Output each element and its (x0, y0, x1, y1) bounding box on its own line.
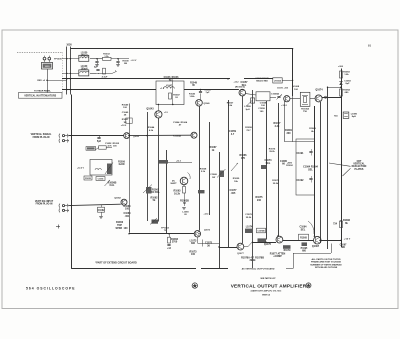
wire TD1064 to Q1074 (310, 98, 315, 100)
wire input upper (69, 135, 124, 137)
wire L1030 line (62, 58, 79, 60)
wire crt arrow upper (329, 163, 351, 166)
wire q1073 right (197, 243, 219, 245)
svg-text:470: 470 (241, 157, 246, 160)
diode D1083 (339, 81, 342, 83)
svg-text:+12.2: +12.2 (281, 105, 287, 107)
wire col 239 (242, 96, 244, 243)
dark box R1079 (283, 245, 291, 249)
svg-text:910: 910 (257, 199, 262, 202)
capacitor C1051 (99, 136, 101, 138)
ground q1063 (184, 193, 186, 206)
svg-text:C1055: C1055 (98, 179, 105, 181)
svg-text:+12.2 V: +12.2 V (77, 167, 85, 169)
svg-text:7pF: 7pF (206, 92, 211, 94)
svg-text:C1062: C1062 (98, 210, 105, 212)
inductor L1047 (164, 87, 175, 89)
wire upper plate vertical (327, 87, 329, 249)
capacitor C1049 (200, 90, 202, 92)
wire left long vertical (71, 95, 73, 269)
svg-text:WER 64: WER 64 (262, 293, 271, 296)
transistor Q1064B (191, 132, 197, 138)
svg-text:+300: +300 (338, 66, 344, 68)
transistor Q1073 (194, 231, 200, 237)
svg-text:*PART OF EXTEND CIRCUIT BOARD: *PART OF EXTEND CIRCUIT BOARD (95, 261, 137, 264)
wire coax bus left (66, 47, 68, 95)
wire delay to cap (270, 97, 276, 99)
wire L1040 line (62, 73, 79, 75)
svg-text:8µH: 8µH (352, 116, 356, 118)
svg-text:R1049: R1049 (122, 104, 129, 107)
svg-text:C1092: C1092 (296, 179, 304, 182)
svg-text:WITH BLUE OUTLINE: WITH BLUE OUTLINE (315, 267, 338, 269)
wire board edge right (286, 268, 293, 270)
dark box P1095 (302, 242, 308, 246)
stage1 bias cluster boxes (86, 147, 96, 151)
transistor Q1074 (315, 95, 322, 102)
svg-text:SEL: SEL (266, 162, 271, 165)
resistor R1063c (169, 234, 171, 237)
svg-text:PLATES: PLATES (355, 168, 364, 171)
pot bottom cluster (152, 220, 159, 224)
node rail right (340, 97, 341, 98)
wire Q1040 col (199, 106, 201, 230)
svg-text:390: 390 (191, 242, 196, 245)
svg-text:.005: .005 (231, 192, 236, 195)
wire from J1030 down (47, 69, 49, 93)
svg-text:TD1064: TD1064 (301, 107, 310, 110)
variable capacitor C1058A (277, 96, 280, 98)
box L1047/R1047 (156, 81, 184, 105)
svg-text:16.2k: 16.2k (174, 192, 181, 195)
wire rear-panel boundary right (62, 52, 64, 92)
svg-text:Q1043: Q1043 (146, 108, 154, 111)
wire crt arrow lower (343, 168, 351, 176)
wire Q1064 to TD1064 (290, 98, 300, 100)
svg-text:C1091: C1091 (296, 152, 304, 155)
svg-text:VERTICAL SIGNAL: VERTICAL SIGNAL (31, 133, 52, 136)
wire stage col 147 (147, 112, 149, 221)
node rail tap (66, 78, 67, 79)
svg-text:39.2k: 39.2k (250, 259, 257, 262)
svg-text:R1047: R1047 (173, 94, 180, 97)
arrow into stage (112, 71, 117, 73)
node REF junction (46, 80, 47, 81)
wire q1064b join (129, 134, 191, 136)
svg-text:L1040: L1040 (81, 65, 88, 68)
junction dots set (71, 135, 72, 136)
svg-text:L1030: L1030 (81, 52, 88, 54)
svg-text:P1095: P1095 (301, 248, 308, 250)
ground C1062 (99, 216, 103, 218)
wire rail mid (62, 78, 230, 80)
svg-text:TO REAR PANEL: TO REAR PANEL (34, 90, 52, 93)
wire first stage column (129, 104, 131, 233)
resistor R1047 (169, 93, 172, 99)
svg-text:+12.2: +12.2 (121, 125, 127, 127)
wire row 234 (129, 233, 194, 235)
dark box R1069 (198, 190, 205, 193)
svg-text:1.96k: 1.96k (189, 96, 195, 98)
svg-text:L1074: L1074 (246, 225, 253, 228)
arc q1097 (308, 221, 314, 234)
plus mark (56, 226, 60, 228)
gain pots (107, 164, 112, 175)
thermal block TD1064 (300, 92, 310, 106)
svg-text:4.7k 100: 4.7k 100 (107, 144, 117, 147)
svg-text:3µH: 3µH (245, 109, 249, 111)
wire col 228 (228, 100, 230, 247)
capacitor C1092 (309, 178, 312, 180)
svg-text:C1097: C1097 (340, 244, 347, 246)
delay-line box (256, 92, 270, 101)
svg-text:C1046 R1046: C1046 R1046 (164, 76, 180, 79)
svg-text:DC BAL: DC BAL (151, 191, 161, 194)
svg-text:CAL: CAL (110, 184, 115, 187)
wire dashed rear-panel boundary top (17, 52, 62, 54)
arc at Q1063 (188, 173, 191, 180)
transistor Q1059 (239, 89, 246, 96)
svg-text:+1.5: +1.5 (164, 112, 168, 114)
svg-text:L1047: L1047 (166, 84, 173, 87)
wire col 166 (166, 150, 168, 234)
wire out row left (219, 247, 237, 249)
svg-text:Q1053: Q1053 (133, 136, 140, 138)
svg-text:NUMBER OF PARTS MARKED: NUMBER OF PARTS MARKED (310, 263, 342, 266)
svg-text:39.2k: 39.2k (269, 151, 275, 153)
svg-text:GAIN: GAIN (119, 163, 125, 166)
svg-text:C1074B: C1074B (257, 230, 265, 233)
input connector lower B (58, 208, 61, 212)
circled mark bottom (192, 283, 197, 288)
node rail2 end (200, 89, 201, 90)
svg-text:+12.2: +12.2 (204, 214, 209, 216)
wire out row right (283, 240, 314, 242)
shield box (296, 139, 315, 195)
svg-text:ALL PARTS ON THE TILTED: ALL PARTS ON THE TILTED (311, 258, 341, 261)
svg-text:TP1030: TP1030 (54, 59, 62, 61)
small box on column (126, 118, 132, 123)
svg-text:5pF: 5pF (97, 140, 102, 143)
resistor R1083 (340, 71, 343, 78)
wire col 219 (219, 152, 221, 269)
svg-text:R1095: R1095 (300, 238, 307, 240)
box C1074B (257, 228, 266, 233)
capacitor C1034 (118, 59, 120, 61)
wire Q1059 to delay box (246, 94, 256, 95)
wire q1073 down (197, 237, 199, 243)
dark box L1074 (245, 229, 253, 233)
transistor Q1077 (237, 243, 244, 250)
dark box R1076 (258, 238, 267, 242)
component L1089 box (343, 112, 349, 118)
wire coax bus right (70, 47, 72, 95)
svg-text:R1055: R1055 (85, 178, 92, 180)
svg-text:SELECTED: SELECTED (256, 80, 268, 82)
svg-text:Q1075: Q1075 (264, 243, 272, 246)
wire out row mid (252, 242, 276, 244)
svg-text:VERTICAL OUTPUT AMPLIFIER: VERTICAL OUTPUT AMPLIFIER (231, 283, 307, 288)
svg-text:R1044: R1044 (148, 126, 155, 129)
svg-text:+ 65 V: + 65 V (344, 238, 351, 240)
svg-text:Q1040: Q1040 (204, 102, 211, 105)
svg-text:564 OSCILLOSCOPE: 564 OSCILLOSCOPE (26, 286, 76, 290)
pot arrows mid (231, 163, 238, 171)
input connector upper B (59, 139, 60, 143)
transistor Q1064 (284, 96, 290, 102)
svg-text:100: 100 (191, 253, 196, 256)
wire jog 142 (285, 141, 315, 143)
capacitor C1043 cluster (96, 73, 99, 75)
svg-text:C1049: C1049 (122, 111, 129, 114)
resistor R1032 (103, 57, 112, 60)
transistor Q1097 (314, 236, 322, 244)
svg-text:1030: 1030 (45, 66, 51, 68)
svg-text:FRAME ARE HIGH VOLTAGE: FRAME ARE HIGH VOLTAGE (311, 261, 341, 264)
box LR1065 (273, 78, 282, 83)
transistor Q1043 (155, 111, 162, 118)
box R1055 (84, 176, 92, 180)
bracket col129 (129, 220, 131, 234)
svg-text:LR1065: LR1065 (274, 80, 282, 82)
wire right rail (341, 69, 343, 248)
svg-text:VERTICAL: VERTICAL (353, 163, 365, 166)
svg-text:C1064 R1064: C1064 R1064 (173, 121, 188, 124)
svg-text:SEL: SEL (308, 168, 313, 171)
capacitor C1091 (309, 151, 312, 153)
svg-text:C1058A: C1058A (271, 93, 279, 96)
connector J1030 pin circles (43, 57, 46, 60)
wire col 314 (314, 106, 316, 236)
svg-text:Q1074: Q1074 (315, 88, 323, 91)
wire Q1074 to rail (322, 97, 341, 99)
wire drop 284 (284, 101, 286, 142)
wire REF to bus (47, 80, 67, 82)
transistor Q1053 (124, 133, 130, 139)
resistor R1084 (340, 89, 343, 96)
svg-text:R1092: R1092 (286, 165, 293, 167)
box C1055 (96, 177, 105, 181)
wire top rail drop (292, 49, 294, 96)
box R1095sel (299, 234, 309, 240)
wire bias stub (95, 148, 99, 150)
wire col 278 (278, 103, 280, 236)
svg-text:AS VERTICAL OUTPUT BOARD: AS VERTICAL OUTPUT BOARD (242, 268, 275, 271)
svg-text:Q1062: Q1062 (114, 198, 121, 200)
input connector lower A (58, 204, 61, 208)
wire input lower (69, 204, 121, 205)
node bus tap2 (66, 73, 67, 74)
svg-text:2700: 2700 (172, 241, 178, 244)
wire col 266 (266, 101, 268, 240)
svg-text:39.2k: 39.2k (246, 217, 252, 219)
svg-text:+12.2: +12.2 (233, 81, 239, 83)
svg-text:R1084: R1084 (343, 89, 350, 92)
resistor R1063A (183, 187, 186, 194)
attenuator box (19, 93, 63, 99)
wire sig to Q1059 (184, 89, 239, 91)
wire col 254 (252, 90, 254, 269)
svg-text:VERTICAL IN ATTENUATORS: VERTICAL IN ATTENUATORS (24, 95, 56, 98)
dark box R1060 (159, 160, 168, 164)
svg-text:+1.2 V: +1.2 V (131, 60, 138, 62)
pot R1061 (146, 187, 152, 194)
input connector upper A (59, 134, 60, 138)
transistor Q1063 (180, 177, 188, 185)
svg-text:VERT SIG INPUT: VERT SIG INPUT (35, 201, 54, 203)
transistor Q1062 (121, 199, 127, 205)
transistor Q1040 (196, 100, 203, 107)
svg-text:SEE PARTS LIST: SEE PARTS LIST (260, 277, 276, 280)
svg-text:Q1077: Q1077 (237, 253, 244, 255)
connector mid (325, 96, 327, 98)
resistor R1095r (340, 221, 343, 228)
svg-text:5pF: 5pF (94, 66, 99, 68)
title circle mark (306, 283, 311, 288)
svg-text:330: 330 (287, 132, 292, 135)
wire out row jog (244, 246, 248, 248)
capacitor C1062 (101, 205, 103, 208)
wire rail lower (62, 89, 156, 91)
svg-text:.001: .001 (125, 215, 130, 218)
svg-text:100: 100 (125, 208, 130, 211)
svg-text:SEL: SEL (301, 228, 306, 231)
capacitor C1032 (97, 59, 99, 61)
wire top rail (70, 48, 292, 50)
node rail2 tap (66, 89, 67, 90)
svg-text:DEFLECTION: DEFLECTION (352, 166, 367, 168)
svg-text:8pF: 8pF (346, 83, 351, 85)
wire bottom board edge (71, 268, 196, 270)
svg-text:FROM PLUG-IN: FROM PLUG-IN (36, 204, 53, 206)
cal arrow (105, 180, 111, 186)
inductor in gain box (95, 168, 101, 170)
svg-text:FROM PLUG-IN: FROM PLUG-IN (33, 137, 50, 139)
svg-text:39.2k: 39.2k (273, 183, 279, 185)
svg-text:Q1097: Q1097 (312, 245, 320, 248)
svg-text:CRT: CRT (357, 161, 362, 163)
svg-text:Q1073: Q1073 (204, 230, 211, 232)
svg-text:[SAWTOOTH AMPLIF] 570-7013: [SAWTOOTH AMPLIF] 570-7013 (251, 289, 282, 292)
svg-text:SPKR 100: SPKR 100 (116, 227, 130, 230)
wire r1060 line (168, 162, 192, 164)
comp c1073 (202, 240, 204, 247)
wire col 320 (320, 102, 322, 243)
svg-text:SHIFT: SHIFT (170, 183, 177, 185)
svg-text:R1056: R1056 (118, 161, 125, 163)
svg-text:2.2k: 2.2k (275, 125, 280, 128)
svg-text:+COMP: +COMP (273, 255, 282, 258)
wire col 173 (172, 81, 174, 105)
transistor Q1075 (276, 236, 283, 243)
wire out to rail (321, 240, 341, 242)
wire Q1043 emitter col (158, 118, 160, 222)
wire drop 292b (292, 96, 294, 142)
svg-text:R1049: R1049 (190, 81, 197, 84)
inductor L1030 (79, 55, 89, 61)
gain box (90, 160, 112, 176)
node bus tap1 (66, 58, 67, 59)
wire col 209 (209, 122, 211, 215)
svg-text:C1074 +100: C1074 +100 (277, 86, 288, 89)
inductor L1040 (79, 70, 89, 76)
svg-text:+12.2: +12.2 (176, 160, 181, 162)
svg-text:SEL: SEL (242, 84, 247, 87)
wire Q1043 collector (158, 105, 160, 111)
svg-text:REV +0: REV +0 (37, 80, 45, 82)
pot left col219 (220, 171, 225, 178)
wire corner to upper plate line (328, 87, 342, 89)
svg-text:1030: 1030 (66, 44, 72, 47)
wire Q1040 collector up (200, 97, 202, 100)
connector block J1030 (42, 62, 53, 69)
